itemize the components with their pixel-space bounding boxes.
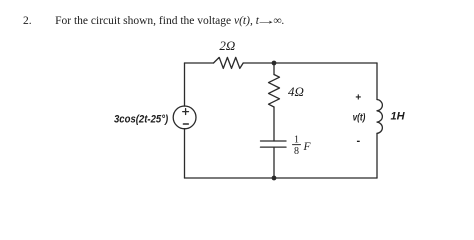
wire left side upper — [184, 63, 186, 106]
wire middle lower — [273, 147, 275, 178]
node B junction dot bottom — [272, 176, 277, 181]
source VS1 circle — [173, 106, 196, 129]
wire left side lower — [184, 129, 186, 178]
svg-text:F: F — [303, 141, 312, 153]
label fraction bar — [293, 144, 301, 146]
capacitor C1 bottom plate — [261, 146, 287, 148]
node A junction dot top — [272, 61, 277, 66]
wire bottom — [185, 177, 378, 179]
wire top-right segment — [243, 62, 377, 64]
svg-text:v(t): v(t) — [353, 112, 366, 123]
svg-text:1H: 1H — [391, 111, 406, 123]
wire top-left segment — [185, 62, 214, 64]
wire right side upper — [376, 63, 378, 100]
svg-text:1: 1 — [294, 135, 299, 146]
wire middle between resistor and capacitor — [273, 107, 275, 141]
wire right side lower — [376, 133, 378, 178]
source VS1 minus sign — [183, 123, 188, 125]
problem statement text — [23, 15, 284, 27]
resistor R1 2ohm (top) — [214, 57, 244, 68]
svg-text:2Ω: 2Ω — [219, 38, 235, 53]
wire middle upper — [273, 63, 275, 75]
svg-text:+: + — [355, 93, 361, 104]
resistor R2 4ohm (middle) — [269, 75, 280, 108]
svg-text:8: 8 — [294, 146, 299, 157]
source VS1 plus sign — [183, 109, 189, 115]
capacitor C1 top plate — [261, 140, 287, 142]
svg-text:-: - — [356, 135, 360, 147]
inductor L1 coils — [377, 100, 382, 134]
svg-text:3cos(2t-25°): 3cos(2t-25°) — [114, 113, 168, 125]
svg-text:4Ω: 4Ω — [288, 84, 304, 99]
